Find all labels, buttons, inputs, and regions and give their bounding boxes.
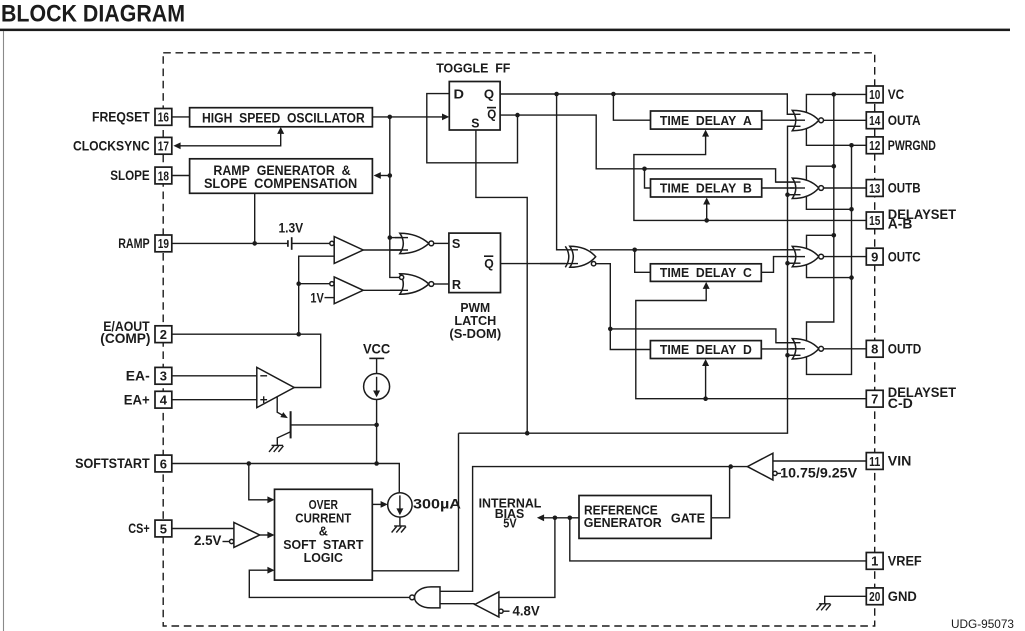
arrowhead up into oscillator (clocksync)	[277, 127, 284, 134]
svg-text:SLOPE COMPENSATION: SLOPE COMPENSATION	[204, 176, 357, 191]
wire stub into OUTC gate middle input	[790, 256, 805, 258]
wire UVLO buffer output to NAND top input	[440, 467, 747, 592]
svg-text:OUTD: OUTD	[888, 342, 922, 357]
svg-text:UDG-95073: UDG-95073	[951, 619, 1014, 631]
wire stub into OUTD gate bottom input	[788, 354, 801, 356]
NOR output driver gate OUTC	[792, 246, 823, 266]
wire time delay A output to OUTA gate	[762, 119, 795, 121]
time delay A	[651, 111, 762, 129]
svg-text:SLOPE: SLOPE	[110, 168, 150, 183]
svg-text:GATE: GATE	[671, 510, 706, 525]
NOR gate S (clock + ramp comparator)	[400, 233, 434, 253]
svg-text:3: 3	[160, 369, 167, 384]
ground at GND pin	[816, 604, 830, 611]
svg-text:300µA: 300µA	[413, 497, 461, 512]
svg-text:15: 15	[869, 213, 880, 228]
NOR output driver gate OUTB	[792, 178, 823, 198]
pin 12 PWRGND	[866, 137, 936, 154]
wire blanking stub to OUTD gate bottom input	[788, 354, 795, 356]
svg-text:17: 17	[158, 139, 169, 154]
wire error amp to transistor base	[277, 397, 285, 417]
svg-text:Q: Q	[484, 87, 494, 101]
wire OUTD gate output to pin8	[824, 348, 867, 350]
svg-text:10: 10	[869, 87, 880, 102]
pin 4 EA+	[124, 391, 172, 408]
arrowhead toward internal bias	[537, 514, 544, 521]
wire delayset C-D arrow up into time delay D	[705, 363, 707, 399]
NAND gate (reversed)	[410, 587, 440, 608]
battery 1.3V symbol	[288, 237, 292, 250]
PWM latch (S-DOM)	[449, 233, 501, 341]
wire CS comparator output into logic box	[260, 534, 268, 536]
toggle flip-flop	[436, 61, 510, 131]
arrowhead into toggle FF clock	[442, 114, 449, 121]
time delay D	[650, 341, 761, 359]
wire transistor emitter to ground	[277, 432, 290, 445]
wire stub into OUTD gate middle input	[790, 348, 805, 350]
svg-text:5: 5	[160, 521, 167, 536]
pin 16 FREQSET	[92, 109, 172, 126]
wire blanking bus from logic to gates and FF set	[459, 126, 795, 433]
pin 6 SOFTSTART	[75, 455, 172, 472]
svg-text:8: 8	[871, 342, 878, 357]
svg-text:18: 18	[158, 168, 169, 183]
svg-text:13: 13	[869, 181, 880, 196]
svg-text:CLOCKSYNC: CLOCKSYNC	[73, 139, 150, 154]
high speed oscillator	[190, 108, 373, 127]
wire XOR complement output routing	[595, 264, 651, 350]
svg-text:GND: GND	[888, 589, 917, 604]
svg-text:Q: Q	[487, 107, 496, 121]
svg-text:VREF: VREF	[888, 554, 922, 569]
internal bias 5V label	[479, 496, 542, 531]
wire 4.8V comparator input from 5V bias	[499, 518, 555, 598]
pin 17 CLOCKSYNC	[73, 137, 172, 154]
wire VCC source chain down to softstart line	[376, 400, 378, 464]
wire battery to comparator1 inverting input	[292, 242, 330, 244]
svg-text:4.8V: 4.8V	[513, 604, 540, 619]
wire stub into OUTA gate bottom input	[788, 125, 801, 127]
svg-text:5V: 5V	[503, 516, 517, 531]
wire DELAYSET A-B pin15 to delay A and B	[634, 134, 867, 221]
wire stub into XOR top input	[557, 249, 578, 251]
pin 11 VIN	[866, 453, 911, 470]
svg-text:16: 16	[158, 110, 169, 125]
svg-text:(COMP): (COMP)	[100, 331, 150, 346]
wire stub into OUTB gate middle input	[790, 187, 805, 189]
wire OUTC gate output to pin9	[824, 256, 867, 258]
pin 18 SLOPE	[110, 167, 172, 184]
wire EA+ pin4 to error amp	[172, 399, 257, 401]
svg-text:BLOCK DIAGRAM: BLOCK DIAGRAM	[1, 1, 185, 28]
svg-text:19: 19	[158, 236, 169, 251]
svg-text:14: 14	[869, 113, 881, 128]
wire E/AOUT pin2 line to error amp output	[172, 334, 321, 387]
svg-text:HIGH SPEED OSCILLATOR: HIGH SPEED OSCILLATOR	[202, 111, 365, 126]
svg-text:D: D	[454, 87, 465, 101]
ground at error amp transistor emitter	[269, 445, 283, 452]
svg-text:TIME DELAY D: TIME DELAY D	[660, 342, 752, 357]
wire softstart branch into logic box	[249, 464, 268, 500]
svg-text:TOGGLE FF: TOGGLE FF	[436, 61, 510, 76]
svg-text:12: 12	[869, 138, 880, 153]
inverter 4.8V comparator	[475, 592, 510, 617]
wire oscillator output to toggle FF clock	[372, 116, 443, 118]
wire 2.5V tick to comparator bubble	[223, 541, 230, 543]
wire VC bus to OUTB gate top	[806, 166, 833, 181]
wire EA- pin3 to error amp	[172, 375, 257, 377]
svg-text:10.75/9.25V: 10.75/9.25V	[780, 466, 857, 481]
pin 10 VC	[866, 86, 904, 103]
wire toggle FF Q output	[500, 94, 794, 114]
wire logic box output to 300uA source	[372, 503, 381, 505]
svg-text:11: 11	[869, 454, 880, 469]
wire RAMP pin19 to battery	[172, 242, 288, 244]
svg-text:VIN: VIN	[888, 454, 912, 469]
wire toggle FF S input from blanking bus	[476, 130, 527, 433]
pin 19 RAMP	[118, 235, 172, 252]
svg-text:OUTA: OUTA	[888, 113, 921, 128]
UVLO buffer 10.75/9.25V	[747, 453, 781, 480]
svg-text:OUTB: OUTB	[888, 181, 921, 196]
VCC current source	[363, 341, 391, 399]
wire 4.8V inverter output to NAND bottom input	[440, 603, 475, 605]
wire CLOCKSYNC feedback from oscillator to pin17	[177, 132, 281, 146]
wire DELAYSET C-D pin7 to delay C and D	[636, 286, 867, 399]
pin 1 VREF	[866, 553, 921, 570]
wire stub into S-NOR bottom input	[390, 249, 408, 251]
wire PWRGND bus to OUTC gate bottom	[807, 264, 852, 278]
wire PWM latch Qbar to XOR bottom input	[501, 263, 567, 265]
svg-text:RAMP: RAMP	[118, 236, 150, 251]
pin 9 OUTC	[866, 248, 921, 265]
transistor Q1	[290, 411, 292, 438]
wire clock branch vertical to ramp gen and PWM NOR gates	[390, 117, 400, 278]
300uA current source	[388, 493, 462, 517]
svg-text:2: 2	[160, 327, 167, 342]
pin 13 OUTB	[866, 180, 921, 197]
wire VREF pin1 line	[570, 518, 867, 561]
NOR output driver gate OUTD	[792, 339, 823, 359]
svg-text:S: S	[452, 237, 461, 251]
wire PWRGND bus vertical	[807, 145, 852, 374]
IC boundary dashed box	[163, 53, 875, 626]
pin 14 OUTA	[866, 112, 921, 129]
rule under title	[0, 29, 1010, 32]
svg-text:R: R	[452, 278, 461, 292]
over current and soft start logic	[275, 489, 373, 580]
wire clock arrow into ramp generator	[378, 175, 390, 177]
wire stub into OUTC gate bottom input	[788, 262, 801, 264]
svg-text:9: 9	[871, 249, 878, 264]
arrowhead into 300uA source	[381, 501, 388, 508]
wire NAND output to logic box input	[249, 570, 409, 597]
svg-text:S: S	[471, 117, 479, 131]
arrowhead into logic box fault input	[267, 567, 274, 574]
wire VIN pin11 to UVLO buffer	[773, 460, 867, 462]
wire blanking stub to OUTB gate bottom input	[788, 194, 795, 196]
comparator CS+ vs 2.5V	[230, 522, 260, 547]
wire stub into R-NOR bottom input	[390, 289, 408, 291]
comparator ramp vs E/A (1.3V offset)	[330, 237, 363, 264]
pin 15 DELAYSET A-B	[866, 207, 957, 232]
wire stub into XOR bottom input	[540, 263, 578, 265]
pin 20 GND	[866, 588, 917, 605]
wire E/A vertical to comparator inputs	[299, 256, 335, 334]
svg-text:CS+: CS+	[128, 521, 150, 536]
wire XOR output to OUTC gate top input	[590, 249, 795, 251]
NOR gate R (clock inverted + 1V comparator)	[400, 274, 434, 294]
svg-text:SOFTSTART: SOFTSTART	[75, 456, 150, 471]
op-amp error amplifier	[257, 367, 294, 407]
arrowhead up into time delay B	[703, 198, 710, 205]
wire toggle FF D feedback from Qbar	[500, 115, 794, 182]
wire SOFTSTART pin6 line	[172, 464, 399, 493]
wire transistor collector to VCC chain	[291, 424, 377, 426]
wire delayset A-B arrow up into time delay B	[706, 202, 708, 221]
svg-text:20: 20	[869, 589, 880, 604]
wire stub into S-NOR top input	[395, 237, 408, 239]
wire OUTA gate output to pin14	[824, 119, 867, 121]
wire ramp generator output down to RAMP line	[254, 193, 256, 243]
wire XOR complement branch to OUTD gate top input	[610, 329, 794, 343]
svg-text:VC: VC	[888, 87, 905, 102]
XOR phase gate	[565, 246, 596, 267]
arrowhead into logic box CS input	[267, 532, 274, 539]
wire blanking stub to OUTC gate bottom input	[788, 262, 795, 264]
arrowhead left into ramp generator	[374, 172, 381, 179]
comparator 1V vs E/A	[330, 277, 363, 304]
pin 8 OUTD	[866, 340, 921, 357]
wire 300uA source to ground	[399, 517, 401, 526]
svg-text:TIME DELAY C: TIME DELAY C	[660, 265, 752, 280]
wire 1V label tick to comparator2 input	[325, 297, 335, 299]
wire time delay B output to OUTB gate	[762, 187, 795, 189]
wire XOR output branch to time delay C input	[635, 250, 651, 272]
wire R-NOR output to PWM latch R	[434, 283, 449, 285]
arrowhead up into time delay C	[703, 282, 710, 289]
wire clock stub to S-NOR top input	[390, 237, 403, 239]
svg-text:EA-: EA-	[126, 369, 150, 384]
wire CS+ pin5 to current comparator	[172, 528, 234, 530]
wire FREQSET pin16 to oscillator	[172, 116, 190, 118]
wire time delay D output to OUTD gate	[761, 348, 794, 350]
NOR output driver gate OUTA	[792, 110, 823, 130]
svg-text:VCC: VCC	[363, 341, 391, 356]
svg-text:2.5V: 2.5V	[194, 533, 221, 548]
wire S-NOR output to PWM latch S	[434, 242, 449, 244]
wire Qbar branch down to time delay B input	[645, 169, 651, 188]
reference generator with gate input	[579, 496, 711, 539]
wire PWRGND pin12 rail from OUTA gate bottom	[806, 128, 866, 146]
wire stub into OUTB gate top input	[776, 181, 801, 183]
wire reference generator output to internal bias	[542, 517, 580, 519]
svg-text:1V: 1V	[310, 291, 323, 306]
wire PWRGND bus to OUTB gate bottom	[806, 195, 851, 209]
wire stub into OUTA gate top input	[787, 113, 800, 115]
arrowhead left into pin17 CLOCKSYNC	[173, 142, 180, 149]
svg-text:PWRGND: PWRGND	[888, 138, 936, 153]
svg-text:1: 1	[871, 554, 878, 569]
pin 7 DELAYSET C-D	[866, 385, 957, 411]
wire VC pin10 rail	[806, 94, 866, 113]
svg-text:4: 4	[160, 393, 168, 408]
wire D feedback loop	[427, 94, 518, 163]
svg-text:A-B: A-B	[888, 216, 913, 231]
pin 2 E/AOUT	[100, 319, 172, 346]
wire stub into OUTD gate top input	[776, 342, 801, 344]
svg-text:EA+: EA+	[124, 392, 150, 407]
wire stub into OUTA gate middle input	[790, 119, 805, 121]
ramp generator and slope compensation	[190, 159, 373, 194]
svg-text:7: 7	[871, 392, 878, 407]
wire Q branch down to XOR top input	[557, 94, 567, 250]
time delay B	[651, 179, 762, 197]
svg-text:OUTC: OUTC	[888, 249, 921, 264]
svg-text:FREQSET: FREQSET	[92, 110, 150, 125]
svg-text:C-D: C-D	[888, 396, 913, 411]
page left border	[3, 31, 5, 631]
wire GND pin20 to ground	[825, 596, 867, 603]
wire OUTB gate output to pin13	[824, 187, 867, 189]
svg-text:TIME DELAY B: TIME DELAY B	[660, 181, 752, 196]
wire time delay C output to OUTC gate	[761, 257, 794, 273]
pin 5 CS+	[128, 520, 172, 537]
arrowhead up into time delay A	[702, 130, 709, 137]
svg-text:LOGIC: LOGIC	[304, 550, 343, 565]
svg-text:(S-DOM): (S-DOM)	[449, 326, 501, 341]
wire stub into OUTC gate top input	[780, 249, 801, 251]
svg-text:6: 6	[160, 456, 167, 471]
svg-text:TIME DELAY A: TIME DELAY A	[660, 113, 752, 128]
wire Q branch down to time delay A input	[613, 94, 650, 120]
wire logic box fault output up to blanking bus	[372, 433, 458, 571]
wire VC bus to OUTC gate top	[807, 235, 834, 249]
svg-text:Q: Q	[484, 257, 494, 271]
pin 3 EA-	[126, 367, 172, 384]
wire VC bus vertical	[807, 94, 834, 341]
svg-text:GENERATOR: GENERATOR	[584, 515, 662, 530]
wire UVLO branch down to reference gate	[711, 467, 729, 518]
wire E/A branch to comparator2 inverting input	[299, 283, 330, 285]
time delay C	[650, 264, 761, 282]
ground below 300uA source	[392, 526, 406, 533]
wire SLOPE pin18 to ramp generator	[172, 175, 190, 177]
wire comparator1 output to S-NOR bottom input	[363, 249, 402, 251]
arrowhead into logic box softstart input	[267, 496, 274, 503]
wire comparator2 output to R-NOR bottom input	[363, 289, 402, 291]
svg-text:1.3V: 1.3V	[278, 221, 303, 236]
arrowhead up into time delay D	[702, 359, 709, 366]
wire stub into OUTB gate bottom input	[788, 194, 801, 196]
